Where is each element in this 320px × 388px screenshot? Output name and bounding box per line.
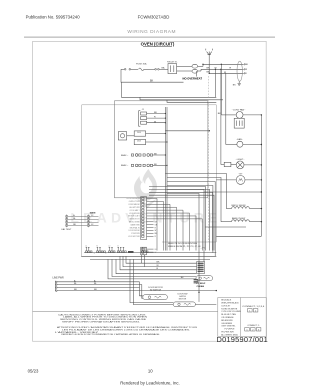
svg-text:W/ SWITCH: W/ SWITCH (150, 290, 162, 292)
connector row tiny labels (86, 246, 145, 256)
indicator lamp 1 (192, 64, 198, 68)
drops into door motor box (140, 282, 143, 296)
harness connector oval (237, 61, 242, 81)
svg-text:Publication No. 5995734240: Publication No. 5995734240 (26, 14, 81, 19)
svg-text:P3: P3 (142, 254, 144, 256)
svg-text:BA/BK→: BA/BK→ (121, 164, 129, 167)
fan motor M2 (237, 141, 243, 147)
diagram frame (33, 41, 267, 341)
svg-text:05/23: 05/23 (28, 369, 39, 374)
terminal block TB2 hatch (194, 279, 199, 283)
svg-text:OVEN LT R/W: OVEN LT R/W (129, 201, 140, 203)
svg-text:→: → (105, 252, 107, 254)
svg-text:CONNECT, 1,2,3,4: CONNECT, 1,2,3,4 (242, 306, 265, 308)
line power block (56, 281, 217, 299)
svg-text:Y-YELLOW GY-GRAY: Y-YELLOW GY-GRAY (221, 310, 241, 313)
switch-lamp pair row 2 (131, 164, 133, 166)
oven sensor box with circle (118, 132, 126, 140)
fan wires (226, 144, 237, 146)
svg-text:SENSOR GY: SENSOR GY (130, 219, 141, 221)
control board box (115, 101, 208, 198)
bottom connector row group 5 (142, 251, 144, 253)
dlb relay box 2 (134, 139, 145, 144)
legend color list (221, 299, 241, 337)
strip wire labels right (155, 221, 158, 253)
svg-text:RELAY K1: RELAY K1 (167, 61, 178, 64)
svg-text:W/BK-WHT/BLACK: W/BK-WHT/BLACK (221, 302, 239, 305)
dashed chassis divider (208, 76, 210, 242)
svg-text:BAKE 2500W: BAKE 2500W (232, 217, 246, 220)
svg-text:D0195907/001: D0195907/001 (217, 335, 269, 344)
watermark flame logo (134, 169, 158, 209)
svg-text:LOCK MOT BR: LOCK MOT BR (128, 236, 140, 238)
svg-text:PK-PINK W/R: PK-PINK W/R (221, 332, 234, 334)
svg-text:L1: L1 (86, 246, 88, 248)
conv fan wires (221, 114, 236, 116)
right bus L2 vertical (260, 115, 262, 236)
svg-text:10: 10 (148, 369, 153, 374)
header rule (24, 36, 275, 38)
relay contact block 2 (141, 117, 147, 120)
drop wire to oven light (220, 69, 222, 164)
drop wire to conv fan (220, 64, 222, 115)
svg-text:FUSE 30A: FUSE 30A (136, 63, 147, 66)
svg-text:LT SW R/W: LT SW R/W (131, 233, 140, 235)
svg-text:CONNECT, 5: CONNECT, 5 (247, 325, 260, 327)
mesh elbow wires down-right (126, 256, 197, 263)
label BRKR arrow (128, 251, 134, 252)
strip P2 (141, 247, 147, 255)
long bundle wire 3 (90, 258, 210, 260)
svg-text:P-PURPLE: P-PURPLE (225, 329, 236, 331)
svg-text:NEUTRAL W: NEUTRAL W (130, 226, 140, 229)
dlb relay box 1 (134, 131, 145, 136)
svg-text:V-VIOLET: V-VIOLET (221, 305, 231, 307)
bottom connector row group 4 (117, 251, 119, 253)
bottom wiring mesh (81, 253, 216, 305)
svg-text:~M~: ~M~ (238, 173, 243, 175)
cooling fan motor wires (216, 179, 236, 181)
junction dots right column (165, 64, 262, 223)
wires between connector halves (68, 215, 88, 217)
P2 drop wires (141, 255, 143, 263)
caution notes block (55, 313, 198, 336)
oven light lamp (236, 161, 244, 169)
svg-text:LINE PWR: LINE PWR (53, 277, 64, 279)
svg-text:DOOR SW BK/W: DOOR SW BK/W (127, 198, 140, 200)
svg-text:MOTOR: MOTOR (179, 299, 187, 301)
board wire to right (165, 130, 209, 132)
svg-text:BROIL 3400W: BROIL 3400W (231, 205, 246, 207)
bake element coil (221, 221, 232, 223)
fuse symbol (139, 68, 144, 71)
cascade elbows to right exits (165, 174, 226, 209)
ground symbol (238, 81, 241, 85)
broil element coil (226, 208, 231, 210)
long bundle wire 1 (84, 252, 216, 254)
neutral drop wire (121, 69, 184, 82)
junction dot door (198, 292, 199, 293)
connector J1 bracket (138, 111, 140, 127)
legend table box (218, 298, 266, 337)
svg-text:DLB: DLB (137, 141, 142, 143)
svg-text:BK-BLACK: BK-BLACK (221, 299, 232, 302)
svg-text:VERIFY PROPER OPERATION AFTER: VERIFY PROPER OPERATION AFTER SERVICING. (62, 320, 141, 323)
console enclosure box (82, 105, 217, 256)
svg-text:GN/Y GRN/YEL: GN/Y GRN/YEL (221, 326, 236, 328)
wire across to lamp bus (204, 191, 261, 193)
top circuit main wire L1 (121, 68, 124, 70)
bottom connector row group 3 (109, 251, 111, 253)
svg-text:NO OVERHEAT: NO OVERHEAT (183, 77, 203, 81)
svg-text:~LIGHT~: ~LIGHT~ (236, 159, 246, 161)
svg-text:CONV FAN BK: CONV FAN BK (128, 203, 140, 206)
drop wire into console bundle (214, 69, 216, 97)
board vertical bus 2 (166, 107, 168, 251)
bus junction wire (216, 235, 261, 237)
line power wires (57, 281, 139, 283)
wire end ticks (243, 63, 245, 65)
main harness connector pair (66, 215, 99, 228)
element return wire (205, 226, 246, 228)
wire sensor to relay (127, 135, 135, 137)
stub wires right (89, 215, 98, 217)
board vertical bus 1 (164, 107, 166, 251)
door latch rounded box (173, 292, 216, 306)
cooling fan motor M3 (236, 176, 245, 185)
wire from latch to right (195, 304, 216, 306)
wire drops to door area (130, 259, 173, 302)
svg-text:HI-LIMIT W/R: HI-LIMIT W/R (129, 207, 140, 209)
terminal block TB1 striped (197, 262, 205, 274)
svg-text:COOL FAN Y: COOL FAN Y (130, 209, 141, 212)
svg-text:OVEN (CIRCUIT): OVEN (CIRCUIT) (141, 41, 175, 46)
svg-text:~CONV FAN~: ~CONV FAN~ (232, 109, 246, 112)
bottom connector row group 2 (97, 251, 99, 253)
svg-text:GN-GREEN: GN-GREEN (221, 323, 232, 325)
svg-text:~FAN~: ~FAN~ (236, 138, 244, 141)
drop wire from self clean (198, 292, 200, 302)
board connector strip P1 (141, 197, 203, 255)
svg-text:WIRING DIAGRAM: WIRING DIAGRAM (127, 29, 176, 35)
line connector symbol (208, 52, 210, 58)
right horizontal feed wires (203, 63, 244, 65)
svg-text:P1 SELF: P1 SELF (197, 283, 207, 285)
svg-text:BAKE R/BK: BAKE R/BK (131, 223, 141, 226)
svg-text:→: → (93, 252, 95, 254)
svg-text:CAL TEST: CAL TEST (61, 228, 72, 231)
separator line above notes (33, 311, 218, 313)
svg-text:→ P5: → P5 (200, 248, 206, 250)
svg-text:Rendered by LeadVenture, Inc.: Rendered by LeadVenture, Inc. (120, 381, 179, 386)
svg-text:OR-ORANGE: OR-ORANGE (221, 316, 234, 319)
svg-text:LOCK SW BR: LOCK SW BR (129, 213, 140, 215)
relay K1 box (168, 64, 177, 74)
bottom connector row group 1 (86, 247, 149, 252)
relay contact block 3 (141, 121, 147, 124)
console sub-panel bottom edge (162, 241, 216, 243)
wires to right bus (198, 65, 203, 67)
board internal bus wires (146, 133, 166, 135)
svg-text:BROIL OR/BK: BROIL OR/BK (129, 221, 141, 223)
svg-text:BL-BLUE T-TAN: BL-BLUE T-TAN (221, 313, 236, 316)
right feed bus vertical (208, 57, 210, 73)
switch contacts (124, 69, 126, 71)
svg-text:BA/BK→: BA/BK→ (121, 154, 129, 157)
switch-lamp pair row 1 (131, 154, 133, 156)
svg-text:VERIFIEZ LE BON FONCTIONNEMENT: VERIFIEZ LE BON FONCTIONNEMENT DE L'APPA… (61, 333, 161, 336)
wires from contact blocks (147, 113, 166, 115)
svg-text:L2: L2 (109, 246, 111, 248)
svg-text:R-RED W-WHITE: R-RED W-WHITE (221, 308, 238, 310)
svg-text:WIRES FROM P1, P2, P3, J7, J8: WIRES FROM P1, P2, P3, J7, J8 (168, 246, 201, 248)
strip pin labels left (127, 198, 141, 238)
svg-text:CLEAN: CLEAN (197, 285, 205, 288)
inner cascade wires to sub-panel (149, 187, 206, 251)
svg-text:BK: BK (150, 79, 154, 82)
oven light switch box (221, 164, 224, 166)
relay output wires (177, 65, 192, 67)
conv fan motor M1 (236, 112, 243, 119)
door motor rounded box (143, 295, 168, 300)
indicator lamp 2 (192, 69, 198, 73)
anti-tip rounded box (196, 276, 213, 281)
svg-text:REMOTE DOOR MOUNTING: REMOTE DOOR MOUNTING (168, 243, 197, 245)
relay contact block 1 (141, 112, 147, 115)
long bundle wire 2 (81, 255, 216, 257)
wire bundle from top circuit into console (122, 82, 217, 97)
svg-text:DLB: DLB (137, 132, 142, 134)
svg-text:FCWM3027ABD: FCWM3027ABD (138, 14, 170, 19)
svg-text:BR-BROWN: BR-BROWN (221, 320, 233, 322)
drop wire to fan (225, 73, 227, 144)
svg-text:MOTOR DLB V: MOTOR DLB V (128, 216, 140, 218)
svg-text:DOOR SW BK: DOOR SW BK (129, 230, 141, 232)
